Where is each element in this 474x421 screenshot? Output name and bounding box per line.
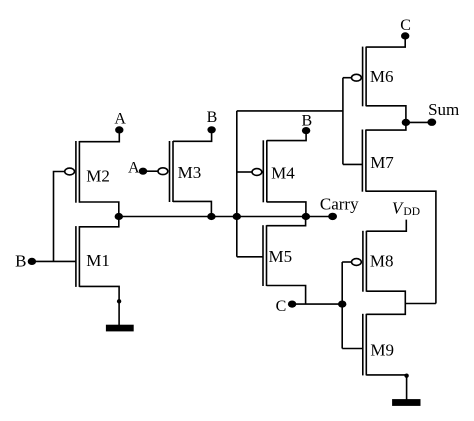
node B (M4 drain terminal) bbox=[302, 127, 310, 134]
wire VDD stub bbox=[366, 220, 406, 232]
wire M6 drain to C bbox=[366, 36, 405, 47]
transistor M2 bbox=[65, 141, 80, 203]
wire vertical rail (bus to M5 gate / top link) bbox=[236, 111, 238, 257]
wire M4 gate to rail bbox=[237, 171, 252, 173]
svg-text:B: B bbox=[207, 109, 218, 126]
node bus at M4/M5 bbox=[302, 213, 310, 220]
wire C input bbox=[292, 303, 342, 305]
svg-text:A: A bbox=[114, 111, 126, 128]
node C junction bbox=[338, 301, 346, 308]
wire Sum output bbox=[406, 121, 432, 123]
svg-text:B: B bbox=[301, 113, 312, 130]
ground (left) bbox=[107, 326, 133, 331]
svg-text:DD: DD bbox=[403, 206, 420, 218]
svg-text:B: B bbox=[15, 251, 26, 270]
wire M2 drain to A bbox=[79, 130, 119, 142]
node above right ground bbox=[404, 374, 408, 378]
wire M9 gate lead bbox=[342, 348, 363, 350]
wire A input to M3 gate bbox=[143, 170, 158, 172]
transistor M3 bbox=[158, 141, 173, 202]
transistor M7 bbox=[362, 130, 366, 192]
wire M6/M7 gate rail bbox=[342, 78, 344, 165]
wire M3 drain to B bbox=[173, 130, 212, 142]
wire M4 source to bus bbox=[267, 202, 306, 217]
wire M8 gate lead bbox=[342, 261, 351, 263]
svg-text:M8: M8 bbox=[370, 252, 394, 271]
wire top link to M6/M7 gates bbox=[237, 110, 343, 112]
svg-text:M4: M4 bbox=[271, 163, 295, 182]
node A input of M3 bbox=[139, 168, 147, 175]
transistor M6 bbox=[352, 47, 367, 107]
wire M5 drain to bus bbox=[267, 217, 306, 226]
wire M5 source to C wire bbox=[267, 286, 306, 305]
wire M2 gate to rail bbox=[54, 172, 65, 262]
svg-text:Sum: Sum bbox=[428, 100, 459, 119]
wire M6 source to Sum node bbox=[366, 106, 406, 123]
wire M9 source to ground bbox=[366, 375, 406, 400]
ground (right) bbox=[393, 400, 420, 405]
svg-text:M6: M6 bbox=[370, 67, 394, 86]
wire B input bbox=[32, 260, 76, 262]
svg-text:M2: M2 bbox=[86, 166, 110, 185]
svg-text:M1: M1 bbox=[86, 251, 110, 270]
wire M7 drain to Sum node bbox=[366, 122, 406, 130]
node B (M3 drain terminal) bbox=[207, 126, 215, 133]
svg-text:M5: M5 bbox=[269, 247, 293, 266]
node Sum terminal bbox=[427, 119, 436, 126]
node bus at rail bbox=[233, 213, 241, 220]
wire bus to Carry bbox=[306, 216, 333, 218]
svg-text:M7: M7 bbox=[370, 153, 394, 172]
wire M1 source to ground bbox=[79, 286, 119, 325]
svg-text:M3: M3 bbox=[178, 163, 202, 182]
svg-text:A: A bbox=[128, 160, 140, 177]
wire M7 source to right rail bbox=[366, 191, 436, 303]
wire M8 source to M9 drain bbox=[366, 291, 405, 314]
wire M2 source to bus bbox=[79, 202, 118, 217]
node above left ground bbox=[117, 299, 121, 303]
node C input bbox=[288, 301, 296, 308]
wire M3 source to bus bbox=[173, 201, 211, 216]
svg-text:Carry: Carry bbox=[320, 195, 359, 214]
wire M5 gate bbox=[237, 256, 263, 258]
node bus at M3 bbox=[207, 213, 215, 220]
wire M6 gate lead bbox=[343, 77, 352, 79]
node C terminal bbox=[401, 32, 409, 39]
wire M4 drain to B bbox=[267, 131, 306, 141]
node A (M2 drain terminal) bbox=[115, 126, 123, 133]
svg-text:C: C bbox=[276, 298, 287, 315]
wire output link to right rail bbox=[405, 303, 436, 305]
wire M1 drain to bus bbox=[79, 217, 118, 227]
node bus at M1/M2 bbox=[115, 213, 123, 220]
svg-text:C: C bbox=[400, 17, 411, 34]
node Sum junction bbox=[402, 119, 410, 126]
transistor M5 bbox=[263, 225, 267, 286]
node B input bbox=[28, 258, 36, 265]
wire M7 gate lead bbox=[343, 163, 363, 165]
node Carry terminal bbox=[328, 213, 337, 220]
transistor M4 bbox=[252, 140, 267, 202]
wire M8/M9 gate rail bbox=[341, 262, 343, 349]
transistor M9 bbox=[363, 314, 367, 376]
main bus wire bbox=[119, 216, 306, 218]
transistor M8 bbox=[352, 231, 367, 292]
transistor M1 bbox=[76, 226, 80, 287]
svg-text:M9: M9 bbox=[370, 340, 394, 359]
